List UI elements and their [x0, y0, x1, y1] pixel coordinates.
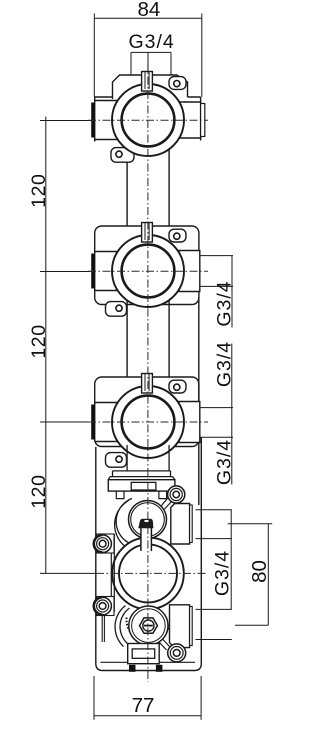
key tab on top of port 2 [142, 223, 153, 243]
dimension 77 (bottom width) [94, 676, 201, 720]
body block behind port 2 [95, 226, 199, 305]
mounting ear top-right of port 2 [169, 229, 186, 242]
svg-text:G3/4: G3/4 [214, 280, 236, 326]
horizontal centerline port 1 [88, 119, 208, 121]
transition neck below port 3 [108, 445, 175, 480]
port 1 outer circle [112, 84, 184, 156]
svg-text:77: 77 [132, 694, 155, 717]
bottom check valve knurled ring [127, 618, 171, 642]
G3/4 labels right of port 3 (above and below) [200, 344, 233, 485]
key tab on top of port 1 [142, 72, 153, 92]
cartridge cap (dark) [138, 519, 153, 529]
body block behind port 3 [95, 377, 199, 447]
svg-text:120: 120 [28, 474, 50, 508]
mounting ear top-right of port 1 [169, 77, 186, 90]
svg-text:G3/4: G3/4 [214, 439, 236, 485]
right outlet block upper [171, 504, 192, 545]
svg-text:120: 120 [28, 174, 50, 208]
left lug top (screw boss) [94, 534, 114, 553]
neck between port 1 and port 2 [127, 143, 169, 226]
left port stub of port 2 [91, 252, 118, 291]
inner bottom plate edge [101, 661, 196, 663]
port 3 outer circle [112, 386, 184, 458]
port 2 outer circle [112, 235, 184, 307]
vertical centerline [147, 62, 149, 682]
neck between port 2 and port 3 [127, 294, 169, 377]
horizontal centerline port 2 [88, 270, 208, 272]
upper flange plate [108, 480, 175, 491]
svg-text:80: 80 [248, 560, 271, 583]
port 3 inner bore circle [122, 396, 175, 449]
svg-text:120: 120 [28, 324, 50, 358]
G3/4 label right of port 2 [200, 256, 233, 328]
right body edge connecting blocks [198, 297, 200, 505]
left lug bottom (screw boss) [94, 597, 114, 616]
left bracket plate between lugs [111, 534, 114, 612]
port 1 inner bore circle [122, 94, 175, 147]
left volute arcs around top check valve [115, 499, 132, 547]
mounting ear top-right of port 3 [169, 380, 186, 393]
big mixer circle inner bore [119, 544, 177, 602]
mounting ear bottom-left of port 1 [111, 148, 134, 163]
mounting ear bottom-left of port 3 [106, 453, 127, 468]
bottom check valve circles [129, 606, 168, 645]
horizontal centerline port 3 [88, 421, 208, 423]
mounting ear bottom-left of port 2 [106, 302, 127, 317]
G3/4 label right of mixer outlet [196, 510, 232, 640]
strut from top valve to right lug [162, 497, 173, 510]
right lug bottom (screw boss) [168, 644, 186, 662]
top fitting above port 1 [95, 75, 201, 99]
left port stub of port 3 [91, 403, 118, 442]
port 1 block sides [95, 97, 201, 142]
dimension 80 (right, between check valves) [228, 524, 273, 626]
bottom hose fitting [128, 644, 163, 672]
bottom volute arcs (left crescent) [115, 606, 129, 647]
spindle stem (white with outline) [141, 526, 152, 551]
right outlet block lower [170, 605, 193, 648]
big mixer circle outer [112, 538, 184, 610]
dimension 120 column (left) [40, 117, 96, 574]
right port stub of port 3 [179, 402, 200, 443]
left port stub of port 1 [91, 101, 118, 140]
svg-text:G3/4: G3/4 [211, 550, 233, 596]
horizontal centerline mixer [96, 572, 206, 574]
key tab on top of port 3 [142, 374, 153, 394]
port 2 inner bore circle [122, 245, 175, 298]
bracket below bottom-left lug [102, 616, 104, 643]
svg-text:84: 84 [137, 0, 160, 21]
right port stub of port 1 [179, 102, 205, 138]
svg-text:G3/4: G3/4 [214, 341, 236, 387]
bottom body outline [96, 438, 202, 671]
dimension 84 (top width) [94, 14, 202, 98]
right port stub of port 2 [179, 251, 200, 292]
right lug top (screw boss) [168, 486, 185, 503]
strut from bottom valve to right ear [160, 639, 170, 650]
svg-text:G3/4: G3/4 [128, 31, 174, 53]
top check valve outer ring [129, 501, 167, 539]
bottom check valve hex nut [140, 618, 158, 633]
